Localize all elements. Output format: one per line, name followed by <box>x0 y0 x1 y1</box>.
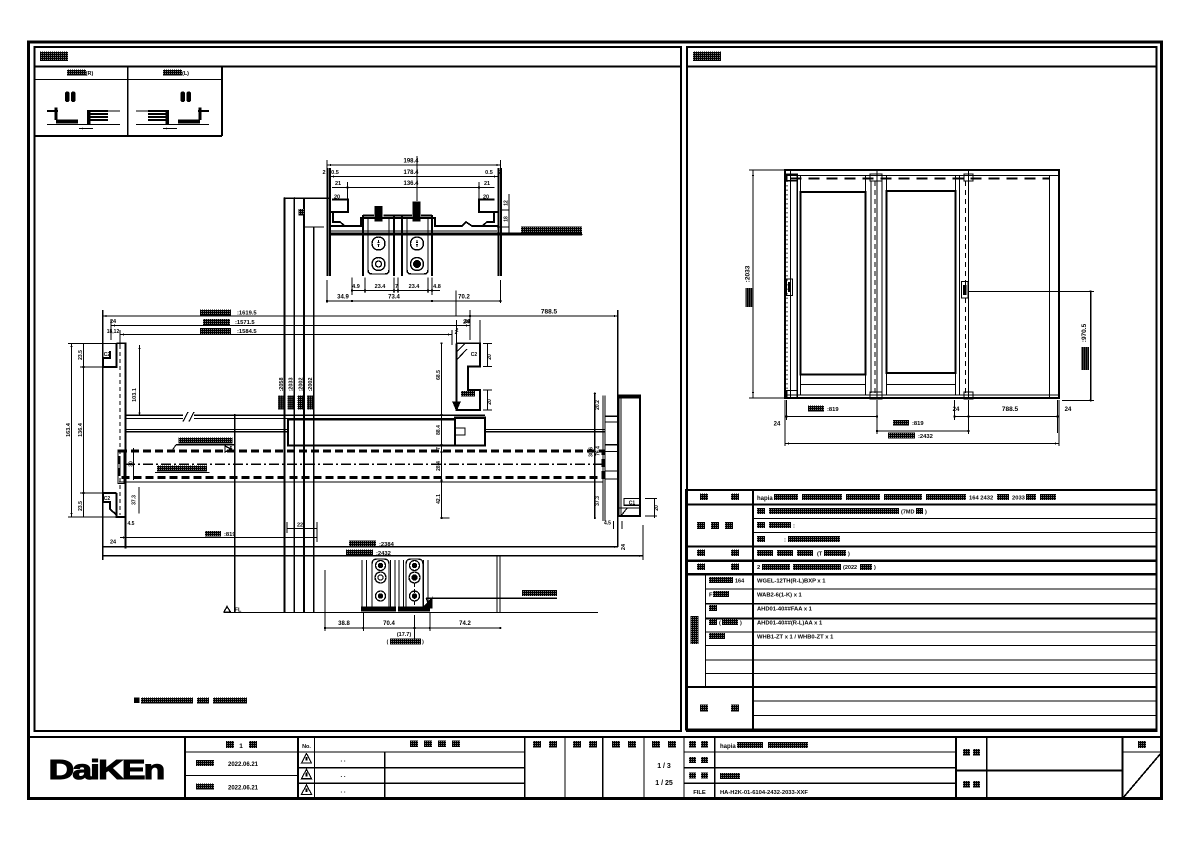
svg-text:12: 12 <box>504 200 510 206</box>
svg-text:(L): (L) <box>182 71 189 77</box>
title block: No column with warn triangles <box>314 737 316 799</box>
svg-text:7: 7 <box>436 447 442 450</box>
plan: right-center dims 20/20 <box>487 343 489 366</box>
svg-text:WAB2-6(1-K) x 1: WAB2-6(1-K) x 1 <box>757 593 803 599</box>
svg-text:103.1: 103.1 <box>132 388 138 402</box>
svg-text::970.5: :970.5 <box>1081 323 1088 342</box>
hinban row 3: door <box>709 605 717 611</box>
vertical extension lines for height dims <box>283 198 285 612</box>
svg-text:23.5: 23.5 <box>78 350 84 360</box>
svg-text:21: 21 <box>484 181 490 187</box>
plan: bottom dim lines 2384/2432 <box>103 546 618 548</box>
svg-text:21: 21 <box>335 181 341 187</box>
top track profile right <box>499 168 502 276</box>
small dim 12/18 right of track <box>508 194 510 234</box>
plan: top dim line 1619.5 / 788.5 <box>103 315 618 317</box>
svg-text:164 2432: 164 2432 <box>969 496 993 502</box>
right jamb dims <box>594 394 596 518</box>
hinban row 1: slim frame <box>709 577 733 583</box>
elevation door2 handle <box>962 282 969 299</box>
plan: bottom dim 819 / 22 <box>120 537 317 539</box>
svg-text:22: 22 <box>297 523 303 529</box>
svg-text:0.5: 0.5 <box>485 170 493 176</box>
bottom section: extension verticals <box>496 556 498 612</box>
svg-text::2033: :2033 <box>289 377 295 391</box>
svg-text:37.3: 37.3 <box>595 496 601 506</box>
track rail cross piece <box>330 218 498 226</box>
svg-text:. .: . . <box>340 789 345 795</box>
header label FRONT-VIEW (shomenzu) <box>693 52 721 62</box>
plan: dim line 1571.5 <box>111 325 470 327</box>
title block: version cell <box>297 737 299 799</box>
svg-text::2384: :2384 <box>379 542 395 548</box>
svg-text:4.8: 4.8 <box>433 284 441 290</box>
svg-text:28.4: 28.4 <box>436 461 442 471</box>
right panel box (front elevation) <box>687 47 1157 731</box>
title block outer <box>29 737 1162 799</box>
title block: scale column <box>683 737 685 799</box>
svg-text::: : <box>784 538 786 544</box>
svg-text:34.9: 34.9 <box>337 295 349 301</box>
svg-text:): ) <box>848 552 850 558</box>
right jamb foot C1 <box>624 499 640 506</box>
svg-text:23.4: 23.4 <box>375 284 387 290</box>
svg-text::819: :819 <box>912 421 924 427</box>
svg-text::1584.5: :1584.5 <box>237 329 257 335</box>
svg-text:74.2: 74.2 <box>459 621 471 627</box>
svg-text:42.1: 42.1 <box>436 494 442 504</box>
svg-text:20.2: 20.2 <box>595 400 601 410</box>
svg-text:24: 24 <box>621 543 627 550</box>
plan: right jamb assembly door-side face <box>602 396 604 521</box>
svg-text:2033: 2033 <box>1012 496 1026 502</box>
note: 2432 spec case <box>134 698 140 704</box>
svg-text:24: 24 <box>110 540 117 546</box>
rotated height dim labels <box>278 396 284 410</box>
mini table: sliding direction cells <box>35 79 223 81</box>
svg-text:24: 24 <box>774 422 781 428</box>
svg-text:FILE: FILE <box>693 790 706 796</box>
hinban row 4: door handle side <box>709 619 717 625</box>
svg-text:163.4: 163.4 <box>66 422 72 437</box>
svg-text::819: :819 <box>827 407 839 413</box>
svg-text:76.4: 76.4 <box>596 446 602 456</box>
svg-text:4.9: 4.9 <box>352 284 360 290</box>
svg-text:C2: C2 <box>104 352 111 358</box>
svg-text:WGEL-12TH(R-L)BXP x 1: WGEL-12TH(R-L)BXP x 1 <box>757 579 826 585</box>
svg-text:AHD01-40##FAA x 1: AHD01-40##FAA x 1 <box>757 607 813 613</box>
svg-text:37.3: 37.3 <box>132 495 138 505</box>
svg-text:4.5: 4.5 <box>128 521 135 527</box>
svg-text:): ) <box>874 565 876 571</box>
plan: center-right jamb (door stop) <box>457 343 481 410</box>
svg-text:hapia: hapia <box>757 496 773 502</box>
elevation right dim 970.5 <box>1090 291 1092 400</box>
elevation door2 <box>886 176 888 396</box>
note: hanger rail packed separately <box>521 227 582 233</box>
plan: leaf B thickness dim 30 <box>133 448 135 480</box>
svg-text:hapia: hapia <box>720 744 736 750</box>
flat rail note <box>522 590 557 596</box>
title block: matter-name cells <box>955 737 957 799</box>
floor guide unit left block <box>362 560 395 608</box>
svg-text:70.4: 70.4 <box>383 621 395 627</box>
svg-text:38.8: 38.8 <box>338 621 350 627</box>
finish row 2: door edge <box>757 522 765 528</box>
header label SECTION-VIEW (dammenzu) <box>40 52 68 62</box>
bottom dims 38.8/70.4/74.2 <box>325 627 501 629</box>
svg-text:. .: . . <box>340 773 345 779</box>
svg-text:2: 2 <box>757 565 760 571</box>
svg-text:2022.06.21: 2022.06.21 <box>228 762 259 768</box>
svg-text:24: 24 <box>464 319 471 325</box>
svg-text:788.5: 788.5 <box>541 309 558 316</box>
svg-text:): ) <box>925 510 927 516</box>
svg-text:24: 24 <box>953 407 960 413</box>
elevation bottom dims row1 <box>787 416 878 418</box>
svg-text:0.5: 0.5 <box>331 170 339 176</box>
svg-text:(: ( <box>719 621 721 627</box>
title block: DAIKEN logo cell <box>184 737 186 799</box>
svg-text:1 / 3: 1 / 3 <box>657 763 671 770</box>
svg-text::2033: :2033 <box>745 265 752 282</box>
plan: left vertical dims 163.4/136.4/23.5 <box>71 343 73 517</box>
svg-text:DaiKEn: DaiKEn <box>49 754 164 785</box>
svg-text:2: 2 <box>322 170 325 176</box>
plan: vertical dim chain 68.5/88.4/7/28.4/42.1 <box>441 343 443 518</box>
svg-text::2002: :2002 <box>299 377 305 391</box>
hinban label (vertical group) <box>691 616 699 644</box>
svg-text:24: 24 <box>1065 407 1072 413</box>
svg-text:(R): (R) <box>86 71 94 77</box>
remarks (biko) label <box>700 705 708 712</box>
svg-text:1 / 25: 1 / 25 <box>655 780 673 787</box>
plan: leaf B pull-cap note <box>157 465 207 471</box>
center cut line <box>234 414 236 612</box>
svg-text::819: :819 <box>224 532 236 538</box>
finish row 3: frame <box>757 536 765 542</box>
svg-text:WHB1-ZT x 1 / WHB0-ZT x 1: WHB1-ZT x 1 / WHB0-ZT x 1 <box>757 635 834 641</box>
elevation left height dim 2033 <box>752 170 754 398</box>
svg-text:30.6: 30.6 <box>589 447 595 457</box>
hanger roller unit 2 <box>402 215 432 276</box>
left panel box (section views) <box>35 47 682 731</box>
rail line thick to note <box>330 233 582 236</box>
svg-text::2002: :2002 <box>308 377 314 391</box>
svg-text:18: 18 <box>504 216 510 222</box>
svg-text:70.2: 70.2 <box>458 295 470 301</box>
svg-text:20: 20 <box>487 354 493 360</box>
top track profile left <box>328 168 331 276</box>
plan: door leaf B dashed box <box>119 451 603 478</box>
svg-text:C1: C1 <box>629 501 636 507</box>
spec row: handle (totte) <box>697 550 705 557</box>
svg-text:18,12: 18,12 <box>107 329 120 335</box>
svg-text:23.4: 23.4 <box>409 284 421 290</box>
elevation door1 handle <box>787 279 793 296</box>
finish row 1: door panel <box>757 508 765 514</box>
mini diagram left-slide (mirrored) <box>187 92 192 103</box>
svg-text::: : <box>793 524 795 530</box>
svg-text:73.4: 73.4 <box>388 295 400 301</box>
plan: 103.1 dim <box>139 345 141 416</box>
mini diagram right-slide <box>65 92 70 103</box>
title block: revision history columns <box>384 752 386 799</box>
mini table header right-slide (R) <box>67 70 86 76</box>
plan: left jamb profile <box>103 343 126 517</box>
svg-text:2022.06.21: 2022.06.21 <box>228 786 259 792</box>
svg-text:1: 1 <box>239 743 243 750</box>
floor guide unit right block <box>399 560 428 608</box>
title block: name rows <box>714 737 716 799</box>
elevation door2 right stile <box>959 176 961 396</box>
elevation outer frame <box>785 170 1059 398</box>
spec row: finish (shiage) label <box>697 522 705 529</box>
svg-text:(2022: (2022 <box>843 565 857 571</box>
plan: leaf A body box <box>288 419 455 445</box>
svg-text:C2: C2 <box>104 496 111 502</box>
spec table outline <box>686 490 1157 730</box>
svg-text:23.5: 23.5 <box>78 501 84 511</box>
svg-text::2058: :2058 <box>279 377 285 391</box>
svg-text::1571.5: :1571.5 <box>235 320 255 326</box>
elevation bottom dim 2432 <box>785 443 1059 445</box>
spec table column lines <box>752 490 754 730</box>
svg-text:136.4: 136.4 <box>78 422 84 437</box>
svg-text:C2: C2 <box>471 352 478 358</box>
elevation top track dashed <box>791 178 1050 180</box>
plan: leaf A stop-device note <box>179 437 233 443</box>
svg-text:(17.7): (17.7) <box>397 632 412 638</box>
svg-text:20: 20 <box>487 399 493 405</box>
elevation door1 <box>786 176 788 395</box>
svg-text:788.5: 788.5 <box>1002 406 1019 413</box>
svg-text:88.4: 88.4 <box>436 425 442 435</box>
spec row: hardware <box>697 564 705 571</box>
label R mark <box>299 209 305 216</box>
floor line FL <box>224 607 231 613</box>
svg-text:30: 30 <box>129 461 135 467</box>
svg-text::2432: :2432 <box>376 551 391 557</box>
svg-text:HA-H2K-01-6104-2432-2033-XXF: HA-H2K-01-6104-2432-2033-XXF <box>720 790 808 796</box>
break marks on leaf A lines <box>183 412 194 422</box>
plan: door leaf A top lines <box>126 414 184 416</box>
svg-text:. .: . . <box>340 758 345 764</box>
svg-text::1619.5: :1619.5 <box>237 311 257 317</box>
spec row: model description (yoshiki) <box>700 494 708 501</box>
plan: dim line 1584.5 <box>120 334 452 336</box>
svg-text:): ) <box>740 621 742 627</box>
svg-text:F: F <box>709 593 713 599</box>
svg-text:(T: (T <box>817 552 823 558</box>
elevation meeting stiles <box>870 181 872 393</box>
svg-text:20: 20 <box>654 505 660 511</box>
right jamb profile <box>619 396 641 516</box>
svg-text:164: 164 <box>735 579 745 585</box>
svg-text:(7MD: (7MD <box>901 510 914 516</box>
hanger roller unit 1 <box>363 215 394 276</box>
svg-text:68.5: 68.5 <box>436 370 442 380</box>
elevation bottom rail lines <box>785 394 1059 396</box>
top section: dim 198.4 <box>327 164 501 166</box>
plan: rail double line upper <box>126 429 289 431</box>
svg-text:4.5: 4.5 <box>604 521 611 527</box>
svg-text:AHD01-40##(R-L)AA x 1: AHD01-40##(R-L)AA x 1 <box>757 621 823 627</box>
title block: approve/check/make columns <box>564 737 566 799</box>
title block: page cell with diagonal <box>1121 737 1123 799</box>
right jamb leaf pockets <box>605 416 619 422</box>
hinban row 5: pull handle <box>709 633 725 639</box>
spec table row lines <box>686 504 1157 506</box>
svg-text::2432: :2432 <box>918 434 933 440</box>
svg-text:No.: No. <box>302 744 311 750</box>
mini table header left-slide (L) <box>163 70 182 76</box>
